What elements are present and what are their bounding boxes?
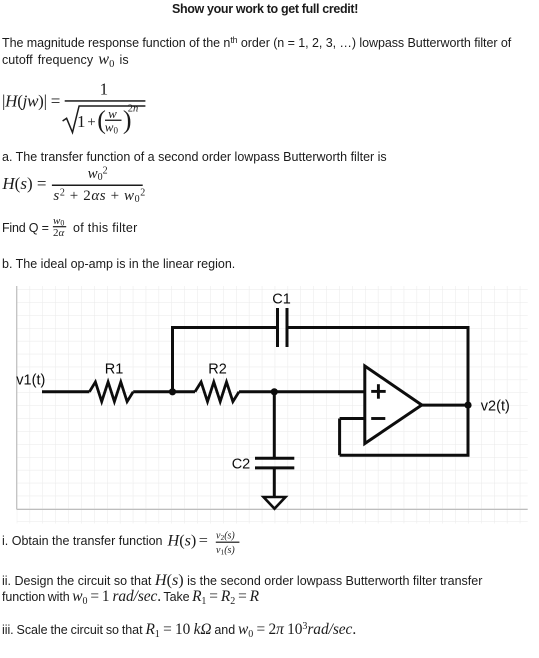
svg-text:C2: C2 xyxy=(232,457,251,473)
wire node B to op-amp + input xyxy=(274,390,365,393)
wire node B down to C2 xyxy=(273,392,276,458)
op-amp U1 xyxy=(365,366,422,444)
op-amp + pin xyxy=(371,384,386,399)
i. line xyxy=(2,534,163,548)
svg-text:C1: C1 xyxy=(272,292,291,308)
wire feedback bottom xyxy=(340,454,470,457)
wire feedback from - input xyxy=(340,417,365,420)
capacitor C1 xyxy=(278,308,288,347)
svg-text:v2(t): v2(t) xyxy=(481,398,510,414)
wire feedback down xyxy=(338,419,341,456)
Find Q fraction w0/2a xyxy=(53,215,66,239)
ii. lines xyxy=(2,573,482,588)
line i serif H(s) = xyxy=(167,532,208,550)
wire R1 to node A xyxy=(133,390,172,393)
wire R2 to node B xyxy=(239,390,274,393)
line i fraction v2(s)/v1(s) xyxy=(216,530,240,556)
node v2 junction dot xyxy=(464,402,471,409)
ground xyxy=(264,497,286,509)
a. line xyxy=(2,150,387,164)
wire C1 to right rail xyxy=(289,326,469,329)
eq1: |H(jw)| = 1 / sqrt(1+(w/w0)^2n) xyxy=(2,80,145,136)
wire node A up to C1 branch xyxy=(171,328,174,392)
wire v1 to R1 xyxy=(42,390,89,393)
b. line xyxy=(2,257,235,271)
node B junction dot xyxy=(271,388,278,395)
wire node A to R2 xyxy=(173,390,196,393)
title xyxy=(0,2,535,16)
wire right rail vertical xyxy=(467,326,470,455)
eq2: H(s) = w0^2/(s^2+2as+w0^2) xyxy=(1,165,145,205)
resistor R1 xyxy=(89,382,133,402)
axis line vertical xyxy=(16,286,18,509)
wire C2 to ground xyxy=(273,468,276,497)
capacitor C2 xyxy=(255,458,294,468)
op-amp - pin xyxy=(371,417,385,420)
svg-text:R1: R1 xyxy=(105,362,124,378)
paragraph 1 line 2 xyxy=(2,52,129,67)
node A junction dot xyxy=(169,388,176,395)
wire op-amp output xyxy=(422,404,468,407)
svg-text:v1(t): v1(t) xyxy=(16,372,45,388)
svg-text:R2: R2 xyxy=(208,362,227,378)
axis line horizontal xyxy=(17,508,528,510)
wire C1 branch left segment xyxy=(171,326,276,329)
node v1(t) label xyxy=(16,372,45,388)
resistor R2 xyxy=(195,382,239,402)
paragraph 1 line 1 xyxy=(2,36,511,50)
Find Q line xyxy=(2,221,49,235)
iii. line xyxy=(2,623,356,637)
